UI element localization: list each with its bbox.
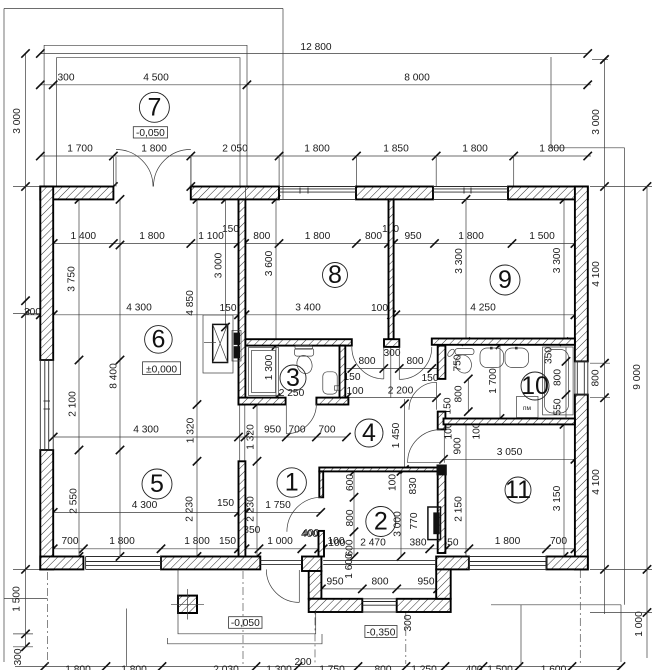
svg-text:1 600: 1 600 bbox=[541, 665, 567, 670]
top wall segment B bbox=[191, 187, 279, 200]
wall face lines across window openings bbox=[279, 186, 356, 188]
svg-text:12 800: 12 800 bbox=[300, 42, 331, 53]
window right wall (room 10) bbox=[576, 361, 578, 394]
front entrance door leaf bbox=[298, 570, 300, 602]
corridor vdim 1450 bbox=[404, 399, 406, 471]
room10 left wall bbox=[438, 346, 446, 379]
room 10 label bbox=[521, 372, 549, 400]
window W2 top (room 9) bbox=[433, 188, 508, 190]
bottom dim line bbox=[15, 666, 621, 668]
svg-text:3 050: 3 050 bbox=[497, 447, 523, 458]
svg-text:8: 8 bbox=[328, 261, 342, 289]
svg-text:700: 700 bbox=[62, 536, 79, 547]
right dim line x=604.5 bbox=[604, 60, 606, 615]
window W3 bottom (room 5) bbox=[86, 561, 161, 563]
svg-text:400: 400 bbox=[466, 665, 483, 670]
dim row 3050 bbox=[444, 458, 575, 460]
svg-text:1 800: 1 800 bbox=[65, 665, 91, 670]
svg-text:300: 300 bbox=[13, 648, 24, 665]
svg-text:800: 800 bbox=[365, 231, 382, 242]
door room 11 bbox=[408, 429, 445, 462]
room3 bottom wall right bbox=[316, 398, 348, 405]
svg-text:8 000: 8 000 bbox=[404, 73, 430, 84]
double entrance door from porch 7 bbox=[116, 157, 191, 187]
svg-text:9: 9 bbox=[498, 266, 512, 294]
svg-text:1 600: 1 600 bbox=[344, 553, 355, 579]
sink room 3 bbox=[323, 372, 337, 394]
frame line top-right vertical bbox=[550, 57, 552, 148]
top wall segment A bbox=[40, 187, 113, 200]
small porch column bbox=[178, 596, 197, 613]
opening edge line room6/1 bbox=[239, 405, 241, 462]
bathtub room 10 bbox=[543, 347, 574, 415]
door room 9 bbox=[399, 347, 432, 380]
svg-text:4 300: 4 300 bbox=[132, 500, 158, 511]
svg-text:800: 800 bbox=[591, 369, 602, 386]
room3 right wall bbox=[340, 346, 346, 405]
toilet room 3 bbox=[295, 346, 313, 350]
svg-text:950: 950 bbox=[327, 577, 344, 588]
interior wall room6/room1 lower bbox=[239, 461, 246, 556]
left outer dim line bbox=[25, 54, 27, 647]
bath dim line 350/800/550 bbox=[565, 347, 567, 419]
right ext lines bbox=[590, 186, 652, 188]
frame line right vertical bbox=[624, 148, 626, 605]
svg-text:1 850: 1 850 bbox=[383, 144, 409, 155]
chimney block outer bbox=[203, 315, 233, 373]
svg-text:1 750: 1 750 bbox=[265, 500, 291, 511]
window W5 rear porch bbox=[362, 601, 396, 603]
svg-text:700: 700 bbox=[319, 425, 336, 436]
svg-text:пм: пм bbox=[523, 405, 532, 412]
vdim x=257: 1320/2230 bbox=[256, 405, 258, 557]
svg-text:750: 750 bbox=[453, 354, 464, 371]
svg-text:3 000: 3 000 bbox=[591, 109, 602, 135]
door leaf pocket room2/11 bbox=[428, 507, 441, 540]
svg-text:1 800: 1 800 bbox=[121, 665, 147, 670]
svg-text:1: 1 bbox=[285, 469, 299, 497]
front porch slab bbox=[178, 569, 316, 633]
svg-text:800: 800 bbox=[454, 385, 465, 402]
frame line bottom-left vertical bbox=[125, 609, 127, 667]
room10/11 wall cap bbox=[438, 412, 446, 430]
room 7 label bbox=[139, 92, 169, 122]
svg-text:100: 100 bbox=[347, 386, 364, 397]
vdim x=197: 4850/1320/2230 bbox=[196, 199, 198, 556]
svg-text:2: 2 bbox=[374, 508, 388, 536]
svg-text:830: 830 bbox=[408, 477, 419, 494]
svg-text:3 300: 3 300 bbox=[454, 248, 465, 274]
svg-text:4 100: 4 100 bbox=[591, 261, 602, 287]
frame line bottom-right vertical bbox=[620, 605, 622, 662]
dim line 12 800 bbox=[40, 53, 587, 55]
svg-text:1 250: 1 250 bbox=[411, 665, 437, 670]
svg-text:±0,000: ±0,000 bbox=[146, 364, 177, 375]
right outer dim line x=647 bbox=[646, 187, 648, 659]
svg-text:3 150: 3 150 bbox=[552, 485, 563, 511]
room2 right wall bbox=[438, 466, 446, 553]
svg-text:150: 150 bbox=[217, 498, 234, 509]
svg-text:1 320: 1 320 bbox=[186, 417, 197, 443]
dim ext 300 right top bbox=[592, 59, 608, 61]
right wall upper bbox=[575, 187, 588, 362]
svg-text:1 750: 1 750 bbox=[319, 665, 345, 670]
svg-text:1 300: 1 300 bbox=[264, 354, 275, 380]
vdim x=564: 3300 / 3150 bbox=[563, 199, 565, 341]
svg-text:800: 800 bbox=[553, 369, 564, 386]
room 1 label bbox=[277, 468, 306, 497]
svg-text:2 050: 2 050 bbox=[222, 144, 248, 155]
chimney inner rect with X bbox=[213, 324, 228, 362]
room2 left wall upper bbox=[319, 471, 323, 497]
rear porch bottom wall left bbox=[309, 599, 363, 612]
svg-text:6: 6 bbox=[151, 325, 165, 353]
twin sinks room 10 bbox=[480, 348, 504, 368]
window W1 top (room 8) bbox=[279, 188, 356, 190]
dim row y=548.8 bottom interior bbox=[53, 548, 575, 550]
svg-text:2 230: 2 230 bbox=[185, 496, 196, 522]
door room 8 bbox=[352, 347, 384, 379]
rear porch right wall bbox=[436, 569, 451, 598]
svg-text:800: 800 bbox=[375, 665, 392, 670]
dim line row 1700/1800/2050/1800/1850/1800/1800 bbox=[40, 155, 591, 157]
washing machine bbox=[517, 397, 539, 418]
toilet room 10 bbox=[455, 349, 474, 355]
svg-text:2 470: 2 470 bbox=[360, 538, 386, 549]
svg-text:1 800: 1 800 bbox=[458, 231, 484, 242]
top wall joint marks bbox=[244, 187, 246, 200]
vdim x=500: 1700 room10 bbox=[499, 345, 501, 419]
svg-text:1 400: 1 400 bbox=[71, 231, 97, 242]
svg-text:2 150: 2 150 bbox=[454, 496, 465, 522]
svg-text:300: 300 bbox=[384, 348, 401, 359]
svg-text:950: 950 bbox=[405, 231, 422, 242]
room 2 label bbox=[366, 507, 396, 537]
svg-text:3: 3 bbox=[286, 364, 300, 392]
wall 8/9 axis extension bbox=[390, 347, 392, 398]
svg-text:2 550: 2 550 bbox=[69, 488, 80, 514]
interior wall room6/8 and room3 left bbox=[239, 199, 246, 404]
vdim x=225.5: 3000 bbox=[225, 199, 227, 327]
svg-text:4: 4 bbox=[362, 419, 376, 447]
ext line wall 6/8 left face bbox=[237, 199, 239, 243]
svg-text:3 750: 3 750 bbox=[67, 266, 78, 292]
svg-text:380: 380 bbox=[410, 538, 427, 549]
top wall segment D bbox=[508, 187, 588, 200]
svg-text:950: 950 bbox=[418, 577, 435, 588]
dim line 300 / 4 500 / 8 000 bbox=[40, 84, 591, 86]
svg-text:100: 100 bbox=[328, 538, 345, 549]
svg-text:300: 300 bbox=[58, 73, 75, 84]
front entrance door arc bbox=[266, 569, 299, 602]
elevation -0,050 porch 7 bbox=[133, 127, 167, 138]
svg-text:4 100: 4 100 bbox=[591, 469, 602, 495]
svg-text:3 600: 3 600 bbox=[264, 250, 275, 276]
left dim ext lines bbox=[13, 186, 40, 188]
svg-text:1 500: 1 500 bbox=[12, 586, 23, 612]
svg-text:1 000: 1 000 bbox=[634, 611, 645, 637]
svg-text:4 300: 4 300 bbox=[133, 425, 159, 436]
svg-text:1 800: 1 800 bbox=[305, 231, 331, 242]
room 8 label bbox=[323, 263, 348, 288]
vdim x=79: 3750/2100/2550 bbox=[78, 199, 80, 556]
vdim x=466: 3300 / 2150 bbox=[465, 199, 467, 341]
svg-text:150: 150 bbox=[220, 303, 237, 314]
svg-text:1 450: 1 450 bbox=[391, 422, 402, 448]
rear porch bottom wall right bbox=[397, 599, 451, 612]
svg-text:-0,350: -0,350 bbox=[367, 627, 396, 638]
elevation ±0,000 room 6 bbox=[143, 362, 181, 375]
svg-text:4 850: 4 850 bbox=[185, 290, 196, 316]
top wall segment C bbox=[356, 187, 433, 200]
svg-text:800: 800 bbox=[359, 356, 376, 367]
room10 top wall bbox=[432, 339, 575, 345]
svg-text:950: 950 bbox=[264, 425, 281, 436]
rear porch opening threshold lines bbox=[323, 560, 436, 562]
room 6 label bbox=[145, 326, 173, 354]
door room 2 bbox=[287, 497, 322, 532]
svg-text:2 030: 2 030 bbox=[213, 665, 239, 670]
svg-text:1 800: 1 800 bbox=[495, 536, 521, 547]
porch 7 canopy outer outline bbox=[44, 45, 247, 186]
door room 3 bbox=[286, 404, 316, 434]
svg-text:900: 900 bbox=[453, 437, 464, 454]
dim row y=243.5: 1400/1800/1100/150/800/1800/100/950/1800/1500 bbox=[53, 243, 575, 245]
svg-text:1 800: 1 800 bbox=[139, 231, 165, 242]
svg-text:700: 700 bbox=[289, 425, 306, 436]
room 11 label bbox=[505, 477, 531, 503]
frame line bottom-left horizontal bbox=[4, 598, 48, 600]
sheet border left bbox=[3, 9, 5, 663]
svg-text:7: 7 bbox=[147, 93, 161, 121]
svg-text:800: 800 bbox=[345, 509, 356, 526]
hall door dims 800/300/800 bbox=[347, 368, 438, 370]
svg-text:3 400: 3 400 bbox=[295, 303, 321, 314]
svg-text:400: 400 bbox=[301, 529, 318, 540]
svg-text:200: 200 bbox=[295, 657, 312, 668]
dim row y=437: 4300/950/700/700 bbox=[53, 436, 346, 438]
svg-text:100: 100 bbox=[371, 303, 388, 314]
room2 left wall stub bbox=[319, 531, 325, 557]
svg-text:1 700: 1 700 bbox=[67, 144, 93, 155]
window left wall (room 6) bbox=[44, 360, 46, 450]
room10 door vdim 800 bbox=[467, 379, 469, 412]
svg-text:150: 150 bbox=[219, 536, 236, 547]
svg-text:1 000: 1 000 bbox=[267, 536, 293, 547]
room 5 label bbox=[142, 469, 172, 499]
bottom wall porch corner L bbox=[302, 557, 321, 572]
svg-text:100: 100 bbox=[388, 474, 399, 491]
room2 right wall cap bbox=[437, 465, 447, 476]
bottom wall segment A bbox=[40, 557, 83, 570]
svg-text:11: 11 bbox=[505, 476, 531, 504]
svg-text:2 200: 2 200 bbox=[388, 386, 414, 397]
room 9 label bbox=[490, 265, 520, 295]
sheet border corner drop bbox=[282, 9, 284, 187]
vdim x=120: 8400 bbox=[119, 199, 121, 556]
svg-text:2 100: 2 100 bbox=[68, 391, 79, 417]
svg-text:4 500: 4 500 bbox=[143, 73, 169, 84]
svg-text:1 800: 1 800 bbox=[141, 144, 167, 155]
svg-text:9 000: 9 000 bbox=[632, 364, 643, 390]
svg-text:1 800: 1 800 bbox=[539, 144, 565, 155]
room 4 label bbox=[355, 419, 383, 447]
svg-text:800: 800 bbox=[372, 577, 389, 588]
svg-text:1 320: 1 320 bbox=[246, 424, 257, 450]
porch 7 canopy inner outline bbox=[57, 58, 241, 187]
svg-text:1 300: 1 300 bbox=[266, 665, 292, 670]
dim row y=512.4: 4300 / 1750 bbox=[53, 511, 321, 513]
svg-text:3 000: 3 000 bbox=[12, 108, 23, 134]
room3 top wall bbox=[245, 339, 351, 345]
left wall upper bbox=[40, 187, 53, 361]
svg-text:1 800: 1 800 bbox=[304, 144, 330, 155]
svg-text:10: 10 bbox=[521, 372, 549, 400]
frame line top-right horizontal bbox=[551, 147, 625, 149]
bottom ext dashed axis lines bbox=[47, 572, 49, 664]
frame line bottom-right horizontal bbox=[491, 604, 621, 606]
svg-text:1 800: 1 800 bbox=[462, 144, 488, 155]
room3 shower tray bbox=[249, 348, 279, 396]
svg-text:150: 150 bbox=[222, 224, 239, 235]
rear porch left wall bbox=[309, 571, 322, 599]
svg-text:5: 5 bbox=[150, 470, 164, 498]
ext lines from row to wall bbox=[112, 156, 114, 187]
room2 vdim 3000 bbox=[400, 471, 402, 556]
svg-text:800: 800 bbox=[253, 231, 270, 242]
svg-text:1 700: 1 700 bbox=[488, 368, 499, 394]
svg-text:-0,050: -0,050 bbox=[136, 128, 165, 139]
elevation -0,350 rear porch bbox=[365, 626, 397, 638]
left wall lower bbox=[40, 450, 53, 569]
room11 top wall bbox=[444, 419, 575, 425]
svg-text:1 500: 1 500 bbox=[529, 231, 555, 242]
svg-text:2 230: 2 230 bbox=[246, 496, 257, 522]
svg-text:4 300: 4 300 bbox=[126, 303, 152, 314]
bottom wall segment D bbox=[547, 557, 588, 570]
room 3 label bbox=[280, 365, 306, 391]
wall cap between hall doors bbox=[384, 339, 399, 347]
porch dim row 950/800/950 bbox=[321, 588, 437, 590]
dim row y=314.8: 300/4300/150/3400/100/4250 bbox=[26, 314, 575, 316]
window W4 bottom (room 11) bbox=[469, 561, 547, 563]
front door threshold bbox=[260, 560, 302, 562]
svg-text:1 100: 1 100 bbox=[198, 231, 224, 242]
svg-text:8 400: 8 400 bbox=[109, 363, 120, 389]
elevation -0,050 front porch bbox=[229, 617, 262, 629]
svg-text:300: 300 bbox=[403, 614, 414, 631]
svg-text:600: 600 bbox=[345, 474, 356, 491]
bottom wall segment C bbox=[436, 557, 469, 570]
interior wall room8/9 bbox=[389, 199, 394, 339]
door room 10 bbox=[409, 382, 437, 410]
right wall lower bbox=[575, 395, 588, 570]
svg-text:700: 700 bbox=[550, 536, 567, 547]
vdim x=276: 3600 / 1300 bbox=[275, 199, 277, 397]
svg-text:1 800: 1 800 bbox=[109, 536, 135, 547]
svg-text:-0,050: -0,050 bbox=[231, 618, 260, 629]
room2 vdims 600/800/600 bbox=[353, 471, 355, 556]
chimney flue dark blocks bbox=[232, 331, 241, 362]
room3 bottom wall left bbox=[239, 398, 286, 405]
svg-text:3 300: 3 300 bbox=[552, 247, 563, 273]
bottom wall segment B bbox=[161, 557, 260, 570]
room2 top wall bbox=[319, 468, 437, 472]
svg-text:770: 770 bbox=[409, 512, 420, 529]
svg-text:800: 800 bbox=[407, 356, 424, 367]
sheet border top bbox=[4, 8, 283, 10]
svg-text:4 250: 4 250 bbox=[470, 303, 496, 314]
dim row y=397.6: 100/2200 bbox=[341, 397, 438, 399]
svg-text:1 500: 1 500 bbox=[487, 665, 513, 670]
svg-text:3 000: 3 000 bbox=[214, 252, 225, 278]
